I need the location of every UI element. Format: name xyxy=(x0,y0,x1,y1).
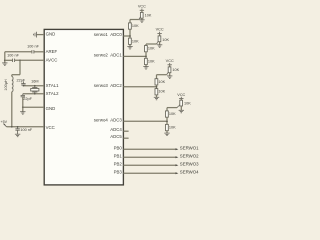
wire AVCC to capacitor xyxy=(15,59,44,61)
pin ADC4 label xyxy=(110,127,122,132)
pin PB2 label xyxy=(114,162,123,167)
wire pot R10 wiper xyxy=(167,107,177,109)
pin VCC label xyxy=(46,125,55,130)
supply VCC symbol (group4) xyxy=(179,97,183,99)
svg-text:PB2: PB2 xyxy=(114,162,123,167)
wire chain1 top xyxy=(129,20,131,23)
svg-text:22pF: 22pF xyxy=(23,97,32,101)
value label 100 nF (C5) xyxy=(20,128,33,132)
wire jog to inductor xyxy=(12,74,20,76)
wire GND2 xyxy=(23,106,44,108)
ground symbol below pot R4 xyxy=(157,45,162,48)
net label SERWO2 xyxy=(180,154,199,159)
value label 10K (R5) xyxy=(148,47,155,51)
svg-text:10K: 10K xyxy=(148,47,155,51)
svg-text:GND: GND xyxy=(46,106,56,111)
junction C5 / +5V rail xyxy=(17,126,19,128)
value label 10K (R8) xyxy=(158,80,165,84)
pin PB1 label xyxy=(114,154,123,159)
junction crystal XTAL1 xyxy=(34,85,36,87)
wire AREF to capacitor xyxy=(34,51,44,53)
svg-text:XTAL1: XTAL1 xyxy=(46,83,60,88)
svg-text:10K: 10K xyxy=(162,38,169,42)
wire inductor to +5V rail xyxy=(11,92,13,127)
svg-text:serwo3 ADC2: serwo3 ADC2 xyxy=(94,83,123,88)
value label 10K (R9) xyxy=(158,90,165,94)
svg-text:16M: 16M xyxy=(31,80,38,84)
junction C3 on XTAL1 wire xyxy=(23,85,25,87)
net label SERWO3 xyxy=(180,162,199,167)
wire pot R4 wiper xyxy=(146,43,157,45)
pin GND (top left) label xyxy=(46,31,56,36)
supply VCC label (group4) xyxy=(177,93,185,97)
svg-text:AREF: AREF xyxy=(46,49,58,54)
supply VCC symbol (group1) xyxy=(140,9,144,11)
svg-text:serwo1 ADC0: serwo1 ADC0 xyxy=(94,32,123,37)
resistor R11 10K xyxy=(166,111,169,117)
wire PB0 to SERWO1 xyxy=(123,148,178,150)
value label 100 nF (C2) xyxy=(7,54,20,58)
wire XTAL1 xyxy=(23,85,44,87)
potentiometer R1 10K xyxy=(139,12,143,19)
junction GND2 / C4 xyxy=(22,106,24,108)
value label 10K (R7) xyxy=(172,68,179,72)
resistor R8 10K xyxy=(155,79,158,85)
svg-text:GND: GND xyxy=(46,31,56,36)
stub ADC5 xyxy=(123,137,128,139)
svg-text:10K: 10K xyxy=(172,68,179,72)
svg-text:ADC5: ADC5 xyxy=(110,134,122,139)
wire chain2 bottom xyxy=(145,65,147,67)
svg-text:PB1: PB1 xyxy=(114,154,123,159)
pin serwo4 ADC3 label xyxy=(94,117,123,122)
svg-text:10K: 10K xyxy=(148,59,155,63)
junction AVCC filter tap xyxy=(19,59,21,61)
wire AVCC tap down xyxy=(19,60,21,74)
wire VCC to pot R7 xyxy=(169,65,171,67)
value label 10K (R10) xyxy=(184,101,191,105)
capacitor C3 22pF (XTAL1) xyxy=(21,82,25,85)
wire chain4 bottom xyxy=(166,131,168,133)
junction ADC0 xyxy=(129,35,131,37)
value label 22pF (C4) xyxy=(23,97,32,101)
svg-text:VCC: VCC xyxy=(156,27,164,31)
svg-text:22pF: 22pF xyxy=(16,79,25,83)
wire inductor top stub xyxy=(11,75,13,77)
svg-text:SERWO3: SERWO3 xyxy=(180,162,199,167)
resistor R6 10K xyxy=(145,58,148,64)
wire PB2 to SERWO3 xyxy=(123,164,178,166)
wire chain3 top xyxy=(156,75,158,79)
pin serwo2 ADC1 label xyxy=(94,53,123,58)
potentiometer R10 10K xyxy=(177,100,183,107)
junction inductor / +5V rail xyxy=(11,126,13,128)
wire chain1 bottom xyxy=(129,44,131,46)
wire XTAL2 xyxy=(23,93,44,95)
resistor R9 10K xyxy=(155,89,158,95)
resistor R3 10K xyxy=(129,38,132,44)
value label 10K (R4) xyxy=(162,38,169,42)
svg-text:serwo4 ADC3: serwo4 ADC3 xyxy=(94,117,123,122)
net label +5V xyxy=(1,120,8,124)
wire chain2 middle xyxy=(145,52,147,59)
svg-text:VCC: VCC xyxy=(46,125,55,130)
junction at AVCC cap / ground rail xyxy=(4,59,6,61)
wire C1 to ground rail xyxy=(5,51,32,53)
supply VCC label (group1) xyxy=(138,5,146,9)
value label 10K (R11) xyxy=(169,112,176,116)
value label 100uH rotated xyxy=(4,79,8,91)
ground symbol below pot R7 xyxy=(167,76,172,79)
wire chain1 middle xyxy=(129,29,131,38)
junction ADC3 xyxy=(166,120,168,122)
wire +5V rail xyxy=(7,126,44,128)
svg-text:10K: 10K xyxy=(158,80,165,84)
value label 10K (R1) xyxy=(145,14,152,18)
ground symbol below AREF/AVCC caps xyxy=(2,63,7,66)
inductor L1 100uH xyxy=(12,77,13,92)
capacitor C2 100nF (AVCC) xyxy=(13,59,15,62)
potentiometer R4 10K xyxy=(157,36,161,44)
wire VCC to pot R1 xyxy=(141,10,143,12)
resistor R12 10K xyxy=(166,124,169,130)
ground symbol below GND2 xyxy=(20,112,25,115)
capacitor C4 22pF (XTAL2) xyxy=(21,94,25,97)
junction crystal XTAL2 xyxy=(34,93,36,95)
resistor R2 10K xyxy=(129,23,132,29)
svg-text:SERWO1: SERWO1 xyxy=(180,146,199,151)
wire pot R10 bottom xyxy=(180,106,182,110)
svg-text:PB0: PB0 xyxy=(114,146,123,151)
pin serwo1 ADC0 label xyxy=(94,32,123,37)
wire C4 to GND rail xyxy=(22,97,24,108)
value label 10K (R2) xyxy=(132,24,139,28)
capacitor C5 100nF (VCC) xyxy=(15,127,19,134)
ground symbol chain4 xyxy=(164,133,169,136)
wire ADC0 xyxy=(123,35,130,37)
crystal Q1 16M xyxy=(31,86,39,94)
supply VCC symbol (group3) xyxy=(168,63,172,65)
wire PB3 to SERWO4 xyxy=(123,172,178,174)
stub ADC4 xyxy=(123,130,128,132)
ground symbol (rotated left) on GND pin xyxy=(34,32,37,38)
pin XTAL2 label xyxy=(46,91,60,96)
resistor R5 10K xyxy=(145,46,148,52)
svg-text:PB3: PB3 xyxy=(114,170,123,175)
wire pot R1 bottom xyxy=(141,18,143,20)
junction ADC2 xyxy=(156,86,158,88)
svg-text:100µH: 100µH xyxy=(4,79,8,91)
value label 10K (R6) xyxy=(148,59,155,63)
svg-text:SERWO4: SERWO4 xyxy=(180,170,199,175)
wire ADC2 xyxy=(123,86,156,88)
svg-text:VCC: VCC xyxy=(138,5,146,9)
svg-text:10K: 10K xyxy=(169,126,176,130)
value label 100 nF (C1) xyxy=(27,45,40,49)
value label 10K (R3) xyxy=(132,39,139,43)
svg-text:100 nF: 100 nF xyxy=(20,128,33,132)
svg-text:VCC: VCC xyxy=(166,59,174,63)
svg-text:+5V: +5V xyxy=(1,120,8,124)
wire VCC to pot R4 xyxy=(159,34,161,36)
wire chain3 bottom xyxy=(156,95,158,97)
wire VCC to pot R10 xyxy=(180,99,182,101)
wire chain4 middle xyxy=(166,117,168,124)
ground symbol chain2 xyxy=(143,67,148,70)
pin GND (second) label xyxy=(46,106,56,111)
wire ADC1 xyxy=(123,55,146,57)
supply VCC symbol (group2) xyxy=(157,32,161,34)
wire PB1 to SERWO2 xyxy=(123,156,178,158)
wire pot R1 wiper xyxy=(130,19,139,21)
pin serwo3 ADC2 label xyxy=(94,83,123,88)
svg-text:10K: 10K xyxy=(132,39,139,43)
value label 16M xyxy=(31,80,38,84)
wire pot R7 wiper xyxy=(157,74,167,76)
ground symbol below pot R1 xyxy=(139,20,144,23)
wire ADC3 xyxy=(123,120,167,122)
ground symbol chain1 xyxy=(127,47,132,50)
svg-text:10K: 10K xyxy=(158,90,165,94)
MCU IC1 box xyxy=(44,29,123,185)
capacitor C1 100nF (AREF) xyxy=(32,50,34,53)
net label SERWO1 xyxy=(180,146,199,151)
ground symbol below C5 xyxy=(15,134,20,137)
svg-text:10K: 10K xyxy=(132,24,139,28)
pin AREF label xyxy=(46,49,58,54)
value label 22pF (C3) xyxy=(16,79,25,83)
supply VCC label (group3) xyxy=(166,59,174,63)
ground symbol chain3 xyxy=(154,97,159,100)
svg-text:SERWO2: SERWO2 xyxy=(180,154,199,159)
wire GND2 stub down xyxy=(22,107,24,111)
wire C2 to ground rail xyxy=(5,59,13,61)
pin AVCC label xyxy=(46,58,58,63)
svg-text:100 nF: 100 nF xyxy=(7,54,20,58)
value label 10K (R12) xyxy=(169,126,176,130)
svg-text:10K: 10K xyxy=(184,101,191,105)
pin PB0 label xyxy=(114,146,123,151)
pin ADC5 label xyxy=(110,134,122,139)
svg-text:VCC: VCC xyxy=(177,93,185,97)
supply +5V arrow xyxy=(3,123,7,127)
svg-text:serwo2 ADC1: serwo2 ADC1 xyxy=(94,53,123,58)
svg-text:10K: 10K xyxy=(169,112,176,116)
wire chain4 top xyxy=(166,108,168,111)
wire pot R7 bottom xyxy=(169,73,171,76)
wire chain3 middle xyxy=(156,85,158,89)
wire chain2 top xyxy=(145,44,147,46)
junction ADC1 xyxy=(145,56,147,58)
wire pot R4 bottom xyxy=(159,42,161,45)
pin PB3 label xyxy=(114,170,123,175)
wire vertical ground rail left xyxy=(4,52,6,63)
ground symbol below pot R10 xyxy=(179,110,184,113)
net label SERWO4 xyxy=(180,170,199,175)
svg-text:100 nF: 100 nF xyxy=(27,45,40,49)
svg-text:ADC4: ADC4 xyxy=(110,127,122,132)
potentiometer R7 10K xyxy=(167,67,171,75)
pin XTAL1 label xyxy=(46,83,60,88)
wire GND pin xyxy=(37,34,45,36)
supply VCC label (group2) xyxy=(156,27,164,31)
svg-text:XTAL2: XTAL2 xyxy=(46,91,60,96)
svg-text:10K: 10K xyxy=(145,14,152,18)
svg-text:AVCC: AVCC xyxy=(46,58,58,63)
